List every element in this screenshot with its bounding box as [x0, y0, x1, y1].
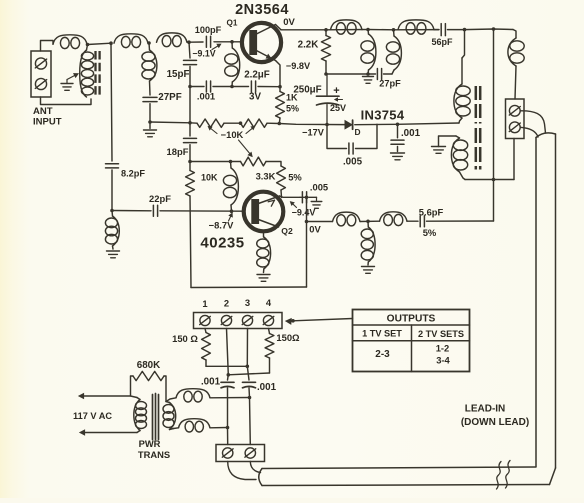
label 5% (5.6pF): [423, 227, 437, 238]
svg-text:.005: .005: [343, 157, 363, 168]
inductor L13 to ground: [361, 221, 375, 265]
svg-text:Q1: Q1: [227, 19, 238, 28]
wire row86 to .001: [190, 86, 204, 88]
wire output row left: [307, 221, 333, 223]
label 27PF: [158, 92, 181, 103]
label 2-3: [375, 349, 390, 360]
label 18pF: [167, 146, 189, 157]
inductor L4 vertical: [142, 43, 157, 95]
wire L1 to input rail: [88, 43, 112, 44]
label -9.8V: [286, 61, 311, 71]
node 2.2K bottom: [324, 72, 328, 76]
label 2.2K: [298, 40, 319, 51]
label 250uF: [293, 85, 321, 96]
label Q1: [227, 19, 238, 28]
svg-text:150 Ω: 150 Ω: [172, 333, 198, 344]
ground below 27PF: [144, 122, 157, 137]
transistor Q1 base bar: [249, 30, 257, 55]
label .005 (diode): [343, 157, 363, 168]
wire 117VAC top: [79, 393, 138, 399]
capacitor 27pF (mid): [377, 69, 392, 80]
wire T3 to bottom block: [249, 398, 252, 445]
label 15pF: [167, 69, 190, 80]
pin number 2: [224, 298, 229, 309]
screw terminal upper A: [509, 105, 520, 116]
ground below L10: [257, 269, 270, 281]
wire T2 secondary to rails: [465, 179, 514, 181]
label ANT INPUT: [33, 106, 62, 128]
svg-text:56pF: 56pF: [431, 37, 453, 47]
transistor Q2 collector lead: [258, 196, 279, 206]
inductor L11: [333, 212, 361, 226]
node Q2 base/L9: [230, 209, 234, 213]
label LEAD-IN: [465, 404, 506, 415]
node emitter/2.2uF: [278, 85, 282, 89]
pin number 3: [245, 297, 250, 308]
wire Q1 emitter down: [276, 61, 281, 87]
capacitor 100pF: [206, 36, 210, 47]
label TRANS: [138, 449, 170, 460]
wire Q2 collector row: [280, 196, 301, 197]
svg-text:3-4: 3-4: [436, 355, 450, 366]
transformer T2 secondary winding: [451, 136, 467, 180]
lead-in cable vertical: [536, 133, 556, 468]
label .001 left: [201, 377, 221, 388]
label -10K: [221, 129, 244, 140]
wire terminal block lower riser: [513, 139, 515, 180]
pin number 4: [266, 297, 272, 308]
wire screw B to lead-in: [520, 127, 538, 137]
wire -17V row: [279, 124, 344, 125]
svg-text:D: D: [354, 127, 360, 137]
node x112/row211: [110, 209, 114, 213]
resistor pot section 1: [197, 119, 224, 127]
wire bypass row y74: [326, 73, 376, 75]
wire choke bottom to T2wire: [210, 427, 228, 429]
svg-text:−9.4V: −9.4V: [292, 208, 316, 218]
transistor Q2 circle: [244, 192, 284, 232]
terminal block (set side): [216, 445, 265, 462]
wire x190 to 18pF: [189, 123, 191, 136]
screw terminal 4: [263, 315, 274, 325]
node x190/pot row: [188, 121, 192, 125]
svg-text:IN3754: IN3754: [361, 108, 405, 123]
wire 15pF to row86: [189, 67, 191, 87]
label -8.7V with arrow: [209, 213, 235, 231]
wire T2 to bottom block: [227, 428, 229, 445]
wire choke top to T3wire: [210, 397, 250, 399]
svg-text:.001: .001: [201, 377, 221, 388]
resistor 10K: [186, 162, 195, 288]
label 3.3K: [256, 171, 276, 182]
wire bottom B to cable: [250, 462, 260, 473]
wire diode row to transformer: [398, 123, 460, 124]
wire collector row to 0V rail: [300, 196, 307, 198]
wire 117VAC bottom: [80, 430, 138, 436]
svg-text:2.2μF: 2.2μF: [244, 70, 270, 81]
svg-text:TRANS: TRANS: [138, 449, 170, 460]
resistor 150ohm right: [265, 329, 274, 374]
screw terminal 1: [200, 315, 211, 325]
capacitor .005 (Q2): [302, 192, 316, 203]
screw terminal upper B: [509, 122, 520, 133]
pin number 1: [202, 298, 207, 309]
wire rail right section: [465, 28, 514, 31]
wire 150 left to T3wire: [206, 365, 247, 367]
wire 100pF to Q1 base: [214, 41, 242, 43]
resistor pot section 2: [241, 119, 268, 127]
twin-lead cable horizontal: [259, 467, 550, 486]
node rail/down rail: [492, 27, 496, 31]
wire x190 down to pot row: [189, 87, 191, 123]
wire rail to L14: [513, 30, 516, 39]
capacitor 5.6pF: [420, 216, 424, 227]
svg-text:3.3K: 3.3K: [256, 171, 276, 182]
wire bottom rail: [191, 286, 307, 289]
wire diode to .001 node: [355, 123, 398, 125]
transformer T2 primary winding: [454, 58, 470, 123]
svg-text:100pF: 100pF: [195, 25, 222, 35]
svg-text:−8.7V: −8.7V: [209, 220, 235, 231]
node 250uF/-17V row: [325, 123, 329, 127]
svg-text:40235: 40235: [200, 235, 244, 252]
transistor Q1 emitter lead: [256, 51, 275, 61]
ground at antenna tap: [61, 80, 73, 91]
wire L12 to 5.6pF: [407, 220, 418, 222]
svg-text:0V: 0V: [309, 224, 321, 235]
svg-text:117 V AC: 117 V AC: [73, 411, 112, 421]
antenna tap arrow: [67, 73, 79, 79]
svg-text:LEAD-IN: LEAD-IN: [465, 404, 506, 415]
ground at L6 bottom: [363, 77, 374, 84]
node pot mid: [239, 121, 243, 125]
wire L11 to L12: [360, 220, 380, 222]
node x190/row161: [188, 160, 192, 164]
svg-text:.001: .001: [197, 91, 215, 102]
label (DOWN LEAD): [461, 417, 529, 428]
terminal strip (outputs): [194, 313, 283, 329]
label -9.1V with arrow: [192, 44, 221, 59]
node T3/choke top: [248, 396, 252, 400]
svg-text:5.6pF: 5.6pF: [419, 207, 444, 218]
label -9.4V with arrow: [290, 202, 315, 218]
label 27pF (mid): [379, 79, 401, 89]
label .001 right: [257, 382, 277, 393]
ground at T2 secondary: [432, 136, 457, 153]
node 150R/T2: [227, 373, 231, 377]
svg-text:−10K: −10K: [221, 129, 244, 140]
node junction base/L5: [230, 40, 234, 44]
label 3V: [249, 92, 261, 103]
capacitor .001 to ground (diode row): [391, 124, 405, 160]
node rail/2.2K: [324, 28, 328, 32]
svg-text:ANT: ANT: [33, 106, 53, 117]
wire 18pF to row161: [189, 145, 191, 162]
wire 5.6pF to down rail: [427, 220, 494, 222]
svg-text:+: +: [333, 85, 339, 97]
svg-text:OUTPUTS: OUTPUTS: [387, 314, 436, 325]
node .001 (diode row): [396, 123, 400, 127]
wire ground row to x190: [150, 121, 190, 124]
capacitor 18pF: [184, 138, 197, 142]
label 150ohm left: [172, 333, 198, 344]
inductor L7 vertical: [386, 30, 401, 74]
capacitor 56pF: [434, 24, 465, 36]
wire 150 right to T2wire: [228, 373, 269, 375]
label OUTPUTS: [387, 314, 436, 325]
wire 8.2pF to node: [111, 170, 113, 211]
label 8.2pF: [121, 169, 145, 179]
svg-text:.001: .001: [401, 128, 421, 139]
capacitor 22pF: [153, 205, 157, 216]
label 5% (3.3K): [288, 172, 302, 183]
node L6 bottom: [366, 72, 370, 76]
label .001 (diode row): [401, 128, 421, 139]
label 5.6pF: [419, 207, 444, 218]
label 5% (1K): [286, 104, 299, 114]
inductor L5 (base shunt): [225, 42, 240, 87]
wire bottom A to cable: [228, 462, 256, 480]
wire Q2 emitter to coil: [263, 231, 265, 237]
svg-text:3V: 3V: [249, 92, 261, 103]
svg-text:2: 2: [224, 298, 229, 309]
label 100pF: [195, 25, 222, 35]
ground below L8: [107, 251, 120, 258]
svg-text:2-3: 2-3: [375, 349, 390, 360]
label PWR: [139, 438, 161, 449]
wire top rail: [281, 29, 439, 31]
label + (250uF): [333, 85, 339, 97]
svg-text:−9.1V: −9.1V: [192, 49, 215, 59]
wire .001 to L5: [213, 86, 232, 88]
svg-text:(DOWN LEAD): (DOWN LEAD): [461, 417, 529, 428]
node junction top-left vertical: [109, 41, 113, 45]
transformer T2 core lower: [476, 128, 480, 170]
inductor L7 top coil: [398, 20, 434, 34]
svg-text:5%: 5%: [423, 227, 437, 238]
inductor L8 to ground: [105, 211, 119, 250]
wire 15pF from node: [189, 42, 190, 58]
wire 27PF to ground node: [149, 104, 151, 122]
capacitor .001 right: [243, 382, 256, 397]
wire terminal3 down: [247, 329, 249, 381]
bypass loop .005 (diode): [327, 124, 377, 154]
inductor L12: [380, 212, 408, 226]
wire pot row left: [190, 122, 197, 124]
node 0V/output row: [305, 220, 309, 224]
outputs table frame: [353, 310, 470, 372]
screw terminal bottom B: [245, 448, 256, 458]
wire 0V vertical: [306, 197, 308, 287]
label 2N3564: [235, 2, 289, 18]
svg-text:2.2K: 2.2K: [298, 40, 319, 51]
svg-text:INPUT: INPUT: [33, 117, 62, 128]
transformer T2 core upper: [476, 86, 480, 124]
svg-text:PWR: PWR: [139, 438, 161, 449]
inductor L6 vertical: [361, 30, 376, 75]
label 1 TV SET: [362, 329, 402, 339]
diode IN3754: [345, 120, 353, 129]
label 40235: [200, 235, 244, 252]
node strip arrow wire: [291, 319, 295, 323]
wire Q1 collector to rail: [276, 25, 282, 30]
svg-text:25V: 25V: [330, 103, 346, 113]
capacitor 250uF electrolytic: [317, 74, 343, 125]
wire screw A to lead-in: [520, 111, 545, 133]
inductor L14: [508, 38, 524, 66]
label .001 (Q1): [197, 91, 215, 102]
svg-text:.005: .005: [310, 182, 328, 193]
label 25V: [330, 103, 346, 113]
node row161/L9: [229, 160, 233, 164]
capacitor 15pF: [184, 60, 197, 64]
terminal block (antenna side): [506, 99, 525, 139]
node rail/L7: [392, 28, 396, 32]
transformer PWR core: [153, 394, 159, 440]
node L5 bottom: [230, 85, 234, 89]
pot wiper arrow: [239, 140, 253, 157]
pot arrow right: [246, 126, 255, 134]
node T2/choke bottom: [226, 426, 230, 430]
inductor L3: [157, 33, 188, 47]
inductor L6 top coil: [331, 20, 363, 34]
label 150ohm right: [276, 332, 300, 343]
transistor Q1 collector lead: [256, 25, 275, 35]
svg-text:−9.8V: −9.8V: [286, 61, 311, 71]
svg-text:2N3564: 2N3564: [235, 2, 289, 18]
label 22pF: [149, 193, 171, 204]
inductor L2: [114, 34, 148, 48]
resistor 680K: [131, 371, 167, 401]
svg-text:Q2: Q2: [281, 226, 293, 236]
wire pot right: [267, 122, 279, 124]
svg-text:10K: 10K: [201, 173, 218, 183]
svg-text:0V: 0V: [283, 17, 295, 28]
resistor 10K lower section: [241, 157, 267, 166]
inductor L10 Q2 emitter: [257, 237, 271, 269]
resistor 3.3K: [277, 166, 286, 198]
wire 22pF to Q2 base: [160, 210, 244, 212]
transformer PWR primary: [134, 398, 147, 433]
wire to 100pF: [189, 41, 203, 43]
label 0V (Q2): [309, 224, 321, 235]
node down-rail/secondary: [492, 178, 496, 182]
transistor Q2 emitter lead: [258, 220, 278, 228]
lead-in cable corner: [550, 468, 556, 485]
label D: [354, 127, 360, 137]
cable break marks: [497, 461, 511, 490]
ground at .005: [311, 197, 322, 208]
svg-text:250μF: 250μF: [293, 85, 321, 96]
node collector/0V: [305, 196, 309, 200]
label 117 V AC: [73, 411, 112, 421]
svg-text:2 TV SETS: 2 TV SETS: [418, 329, 464, 339]
node 680K/secondary top: [166, 398, 176, 402]
antenna input terminal block: [31, 51, 51, 97]
wire row161: [190, 161, 241, 163]
label 1K: [286, 93, 298, 103]
wire rail to T2 primary: [462, 30, 465, 58]
label Q2: [281, 226, 293, 236]
svg-text:15pF: 15pF: [167, 69, 190, 80]
svg-text:27pF: 27pF: [379, 79, 401, 89]
svg-text:680K: 680K: [137, 360, 160, 371]
svg-text:18pF: 18pF: [167, 146, 189, 157]
svg-text:5%: 5%: [288, 172, 302, 183]
svg-text:150Ω: 150Ω: [276, 332, 300, 343]
label .005 (Q2): [310, 182, 328, 193]
label 0V at Q1 collector: [283, 17, 295, 28]
label 2 TV SETS: [418, 329, 464, 339]
wire pot mid: [224, 122, 241, 124]
transistor Q2 base bar: [251, 199, 259, 224]
inductor L9 (pot to Q2 base): [223, 162, 238, 212]
pot arrow left: [208, 126, 217, 133]
svg-text:8.2pF: 8.2pF: [121, 169, 145, 179]
svg-text:−17V: −17V: [302, 128, 325, 138]
inductor choke bottom: [174, 419, 211, 432]
label 10K: [201, 173, 218, 183]
label 3-4: [436, 355, 450, 366]
label 56pF: [431, 37, 453, 47]
capacitor 8.2pF: [106, 164, 119, 168]
ant screw terminal bottom: [35, 78, 46, 89]
svg-text:27PF: 27PF: [158, 92, 181, 103]
label -17V: [302, 128, 325, 138]
node rail/L6: [366, 28, 370, 32]
node junction L2/L3: [147, 41, 151, 45]
resistor 2.2K: [321, 30, 330, 74]
ground below L13: [362, 267, 375, 274]
inductor choke top: [176, 389, 210, 402]
screw terminal 3: [242, 315, 253, 325]
wire strip to outputs table: [286, 318, 353, 324]
wire terminal2 down: [227, 329, 229, 381]
node 27PF/ground: [148, 120, 152, 124]
wire left vertical x112: [111, 43, 112, 161]
node 150L/T3: [246, 365, 250, 369]
resistor 150ohm left: [202, 329, 211, 367]
label 1-2: [436, 343, 450, 354]
node rail/output transformer: [463, 28, 467, 32]
node junction ant/L1: [86, 43, 90, 47]
svg-text:1 TV SET: 1 TV SET: [362, 329, 402, 339]
node junction L3/C-100pF: [187, 40, 191, 44]
svg-text:3: 3: [245, 297, 250, 308]
svg-text:5%: 5%: [286, 104, 299, 114]
wire down rail: [493, 29, 495, 221]
svg-text:22pF: 22pF: [149, 193, 171, 204]
node output row/L13: [366, 220, 370, 224]
svg-text:1-2: 1-2: [436, 343, 450, 354]
inductor L1 (ant top coil): [53, 35, 87, 49]
label 2.2uF: [244, 70, 270, 81]
ant screw terminal top: [35, 58, 46, 69]
node pot/1K: [278, 122, 282, 126]
wire row161 to 3.3K: [266, 162, 281, 167]
svg-text:.001: .001: [257, 382, 277, 393]
capacitor 2.2uF: [232, 81, 280, 92]
transistor Q1 circle: [242, 23, 281, 62]
wire ant bottom loop: [41, 97, 92, 105]
transformer T1 primary winding: [80, 45, 94, 98]
label 680K: [137, 360, 160, 371]
transformer PWR secondary: [163, 402, 176, 430]
wire row211 to 22pF: [112, 210, 151, 212]
capacitor 27PF: [143, 97, 157, 101]
svg-text:1: 1: [202, 298, 207, 309]
capacitor .001 left: [221, 382, 234, 427]
